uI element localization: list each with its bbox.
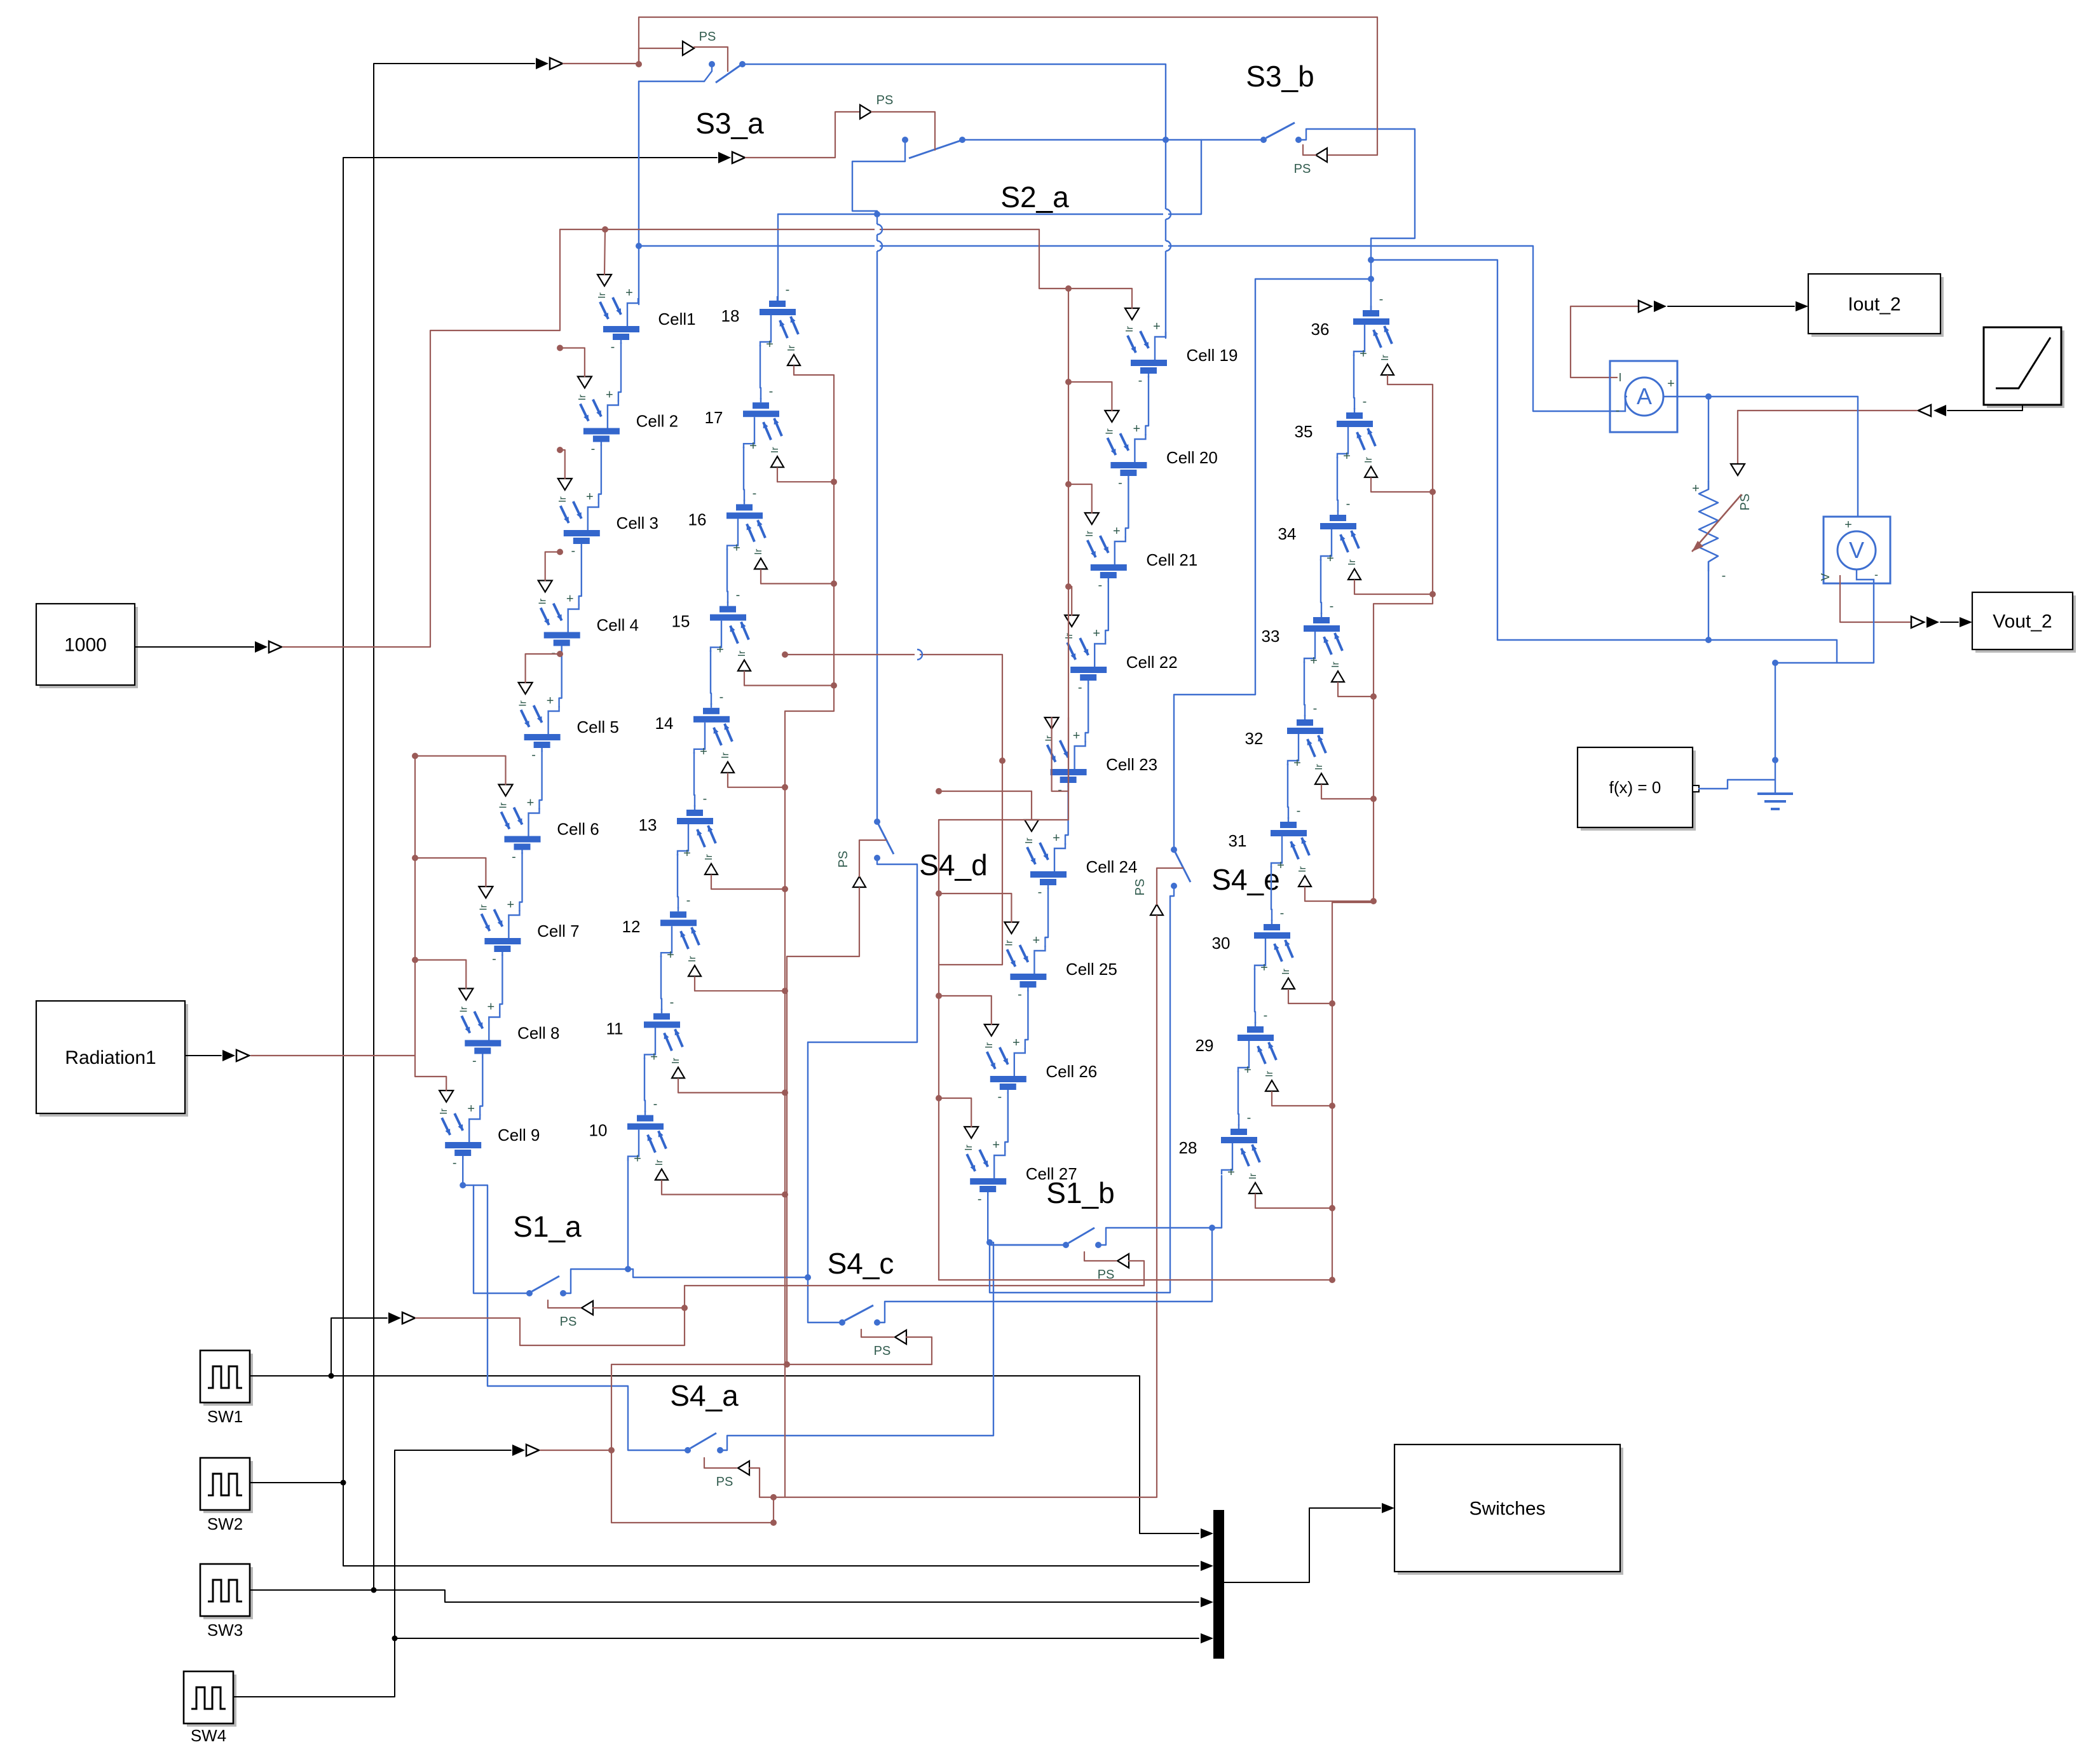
wire 36 top to S4_e [1174,279,1371,850]
svg-text:+: + [606,388,613,402]
wire radiation spine C link [939,717,1068,1280]
wire S4_c PS stub [861,1329,894,1337]
svg-text:Cell 2: Cell 2 [636,412,678,431]
solver block f(x)=0 [1578,747,1696,831]
junction Ir 16 [831,580,837,587]
svg-text:f(x) = 0: f(x) = 0 [1609,778,1661,797]
resistor control arrow [1692,494,1742,552]
svg-text:+: + [507,898,515,912]
hop Cell19 riser over string B bus [1163,209,1168,219]
wire 36 top to output bus [1371,260,1497,640]
wire Cell9 to S1_a [463,1185,528,1293]
svg-text:11: 11 [606,1019,624,1038]
wire 35 to 34 [1337,457,1338,512]
hop S2_a line over radiation bus [875,224,880,235]
wire Ir 36 chain [1332,376,1433,1280]
junction ground branch [1772,660,1778,666]
svg-text:+: + [733,541,740,555]
wire Cell 26 to Cell 27 [1005,1092,1008,1152]
svg-text:SW2: SW2 [207,1514,243,1533]
svg-text:-: - [753,486,757,500]
wire 36 to 35 [1354,355,1354,409]
svg-text:PS: PS [876,93,894,107]
svg-text:A: A [1637,383,1652,409]
junction Ir 33 [1370,693,1377,700]
wire Cell1 to Cell 2 [618,343,621,402]
svg-text:35: 35 [1295,422,1313,441]
svg-text:PS: PS [1294,162,1311,176]
wire Cell 22 to Cell 23 [1086,683,1089,742]
svg-text:-: - [1379,292,1384,306]
svg-text:-: - [1058,783,1062,797]
svg-text:-: - [611,340,615,354]
svg-text:-: - [551,646,556,660]
wire Ir 13 [711,875,785,889]
svg-text:29: 29 [1196,1036,1214,1055]
svg-text:+: + [1073,729,1081,743]
junction Ir Cell 8 [412,957,418,963]
svg-text:+: + [1310,654,1318,668]
junction Cell9 bottom [460,1182,466,1188]
converter arrow Radiation1 [222,1050,235,1061]
svg-text:Cell1: Cell1 [658,309,695,329]
wire J1 to resistor [1708,397,1709,481]
wire Ir Cell 22 [1068,587,1072,615]
junction 36 top b [1368,276,1374,282]
svg-text:15: 15 [672,612,690,631]
solar cell 30 [1254,920,1293,970]
svg-text:Vout_2: Vout_2 [1993,611,2052,632]
svg-text:V: V [1849,537,1864,563]
solar cell Cell 25 [1007,945,1046,991]
svg-text:Cell 3: Cell 3 [617,513,658,533]
wire S4 control from converter [540,1450,611,1451]
junction S4_c left [805,1274,811,1281]
svg-text:-: - [1616,404,1620,418]
svg-text:36: 36 [1311,320,1330,339]
svg-text:18: 18 [721,306,740,325]
wire bus to voltmeter minus [1775,583,1874,663]
svg-text:Ir: Ir [1347,559,1358,565]
arrow into Switches [1382,1503,1394,1513]
svg-text:Ir: Ir [1004,939,1014,946]
svg-text:+: + [1692,482,1700,496]
wire converter to Vout_2 [1940,622,1958,623]
wire SW4 to mux [395,1638,1199,1639]
junction SW3 [371,1587,377,1593]
solar cell Cell 9 [442,1113,481,1160]
svg-text:-: - [472,1054,477,1068]
wire Cell27 node to S4_e bottom [990,886,1174,1293]
svg-text:Ir: Ir [1380,354,1391,360]
wire S4e control link [774,1497,785,1498]
solar cell 34 [1320,510,1359,561]
svg-text:+: + [716,643,724,657]
wire S3_b right riser [1299,129,1415,311]
wire Radiation1 output [185,1055,221,1056]
converter saturation to PS [1918,405,1931,416]
wire Ir Cell 27 [939,1098,971,1127]
wire Cell 7 to Cell 8 [500,955,502,1014]
wire S4 control down [611,1450,774,1523]
wire SW4 output [234,1638,395,1697]
wire 14 to 13 [694,752,695,806]
junction Ir Cell 4 [557,549,563,555]
solar cell 28 [1221,1124,1260,1174]
wire solver to ground node [1699,780,1775,789]
wire S3_a PS lead [639,48,681,64]
svg-text:Ir: Ir [1330,661,1341,667]
arrow into Vout_2 [1960,617,1972,627]
wire Ir 34 [1354,580,1433,594]
wire S1_a PS stub [548,1300,580,1308]
wire Cell 3 to Cell 4 [579,547,582,606]
wire Cell27 node to S4_a right [720,1242,993,1450]
wire S4_d bottom route [808,858,917,1277]
svg-text:10: 10 [589,1121,608,1140]
junction 36 top a [1368,257,1374,263]
junction J1 [1705,393,1712,400]
svg-text:-: - [1038,885,1042,899]
solar cell Cell 5 [521,705,561,752]
svg-text:-: - [1346,497,1351,511]
solar cell 11 [644,1009,683,1059]
solar cell Cell 4 [541,604,580,650]
svg-text:Cell 22: Cell 22 [1126,653,1178,672]
svg-text:-: - [1018,988,1022,1002]
svg-text:30: 30 [1212,934,1231,953]
wire 1000 output [135,646,254,648]
svg-text:PS: PS [716,1475,733,1489]
solar cell Cell 19 [1128,331,1167,377]
svg-text:Ir: Ir [720,752,731,758]
svg-text:+: + [1326,552,1334,566]
svg-text:Cell 4: Cell 4 [596,616,638,635]
wire ammeter I to converter [1571,306,1637,377]
svg-text:SW1: SW1 [207,1407,243,1426]
junction SW1 [329,1373,334,1379]
svg-text:-: - [1297,804,1301,818]
wire SW4 to converter [395,1450,511,1638]
svg-text:Cell 19: Cell 19 [1187,346,1238,365]
wire Ir 32 [1321,785,1374,799]
junction Ir 28 [1329,1205,1335,1211]
converter arrow S3 control [536,58,549,69]
svg-text:-: - [1078,681,1082,695]
solar cell Cell 7 [481,909,521,956]
wire voltmeter V to converter [1840,583,1910,622]
wire Ir Cell 8 [415,960,466,989]
svg-text:+: + [634,1152,641,1166]
wire Ir 18 chain [785,366,834,1497]
wire 16 to 15 [727,548,728,602]
wire Cell 24 to Cell 25 [1045,888,1048,947]
solar cell Cell 21 [1087,536,1127,582]
wire Ir 35 [1371,478,1433,492]
wire Ir 15 [744,672,834,686]
svg-text:14: 14 [655,714,674,733]
svg-text:Cell 6: Cell 6 [557,820,599,839]
pulse generator SW1 [200,1350,253,1406]
hop Cell19 riser over main bus [1163,241,1168,251]
PS port S3_a [683,41,694,55]
svg-text:+: + [766,337,774,351]
wire 30 to 29 [1255,969,1255,1023]
wire Cell 6 to Cell 7 [519,853,522,912]
junction Ir 35 [1429,489,1436,495]
svg-text:Ir: Ir [478,904,489,910]
junction S4d control [784,1361,790,1368]
svg-text:12: 12 [622,917,641,936]
wire Ir 14 [728,773,785,787]
svg-text:+: + [625,286,633,300]
wire 11 to 10 [644,1057,645,1111]
junction Cell10 plus [625,1266,631,1272]
solar cell Cell 23 [1047,740,1087,787]
wire radiation link BC [785,655,1002,965]
wire 15 to 14 [711,651,711,705]
svg-text:Iout_2: Iout_2 [1848,294,1900,315]
svg-text:Ir: Ir [1104,428,1115,434]
svg-text:SW3: SW3 [207,1621,243,1640]
wire resistor to output bus [1708,571,1709,640]
outport block Vout_2 [1972,592,2076,653]
solar cell 14 [693,704,732,754]
wire string B top bus [778,140,1201,214]
svg-text:+: + [1260,961,1268,975]
wire top brown loop [639,17,1377,64]
wire Ir 31 [1305,887,1374,901]
wire Ir 29 [1272,1092,1332,1106]
wire S1 control net [416,1286,685,1345]
wire Ir Cell 25 [939,894,1011,922]
junction S4 control [608,1447,615,1453]
svg-text:+: + [749,439,757,453]
svg-text:Ir: Ir [1124,325,1135,332]
mux block [1213,1510,1224,1659]
solar cell Cell 26 [987,1047,1026,1094]
svg-text:Ir: Ir [786,344,797,351]
converter Iout [1639,301,1651,312]
svg-text:Cell 27: Cell 27 [1026,1164,1077,1183]
wire SW1 output [250,1376,1199,1533]
svg-text:-: - [1722,569,1726,583]
wire Cell 21 to Cell 22 [1105,581,1108,640]
wire radiation bus into Cell19 [1068,289,1132,308]
wire SW3 to converter [374,64,535,1590]
wire Ir Cell 4 [545,552,560,581]
svg-text:+: + [1360,347,1367,361]
svg-text:-: - [571,544,575,558]
wire Cell 8 to Cell 9 [480,1057,482,1116]
arrow mux in2 [1201,1561,1213,1571]
outport block Iout_2 [1808,274,1944,337]
svg-text:Ir: Ir [737,650,747,656]
svg-text:+: + [1093,627,1100,641]
svg-text:PS: PS [699,30,716,44]
wire S1_b PS stub [1084,1252,1116,1261]
solar cell Cell 22 [1067,638,1107,684]
svg-text:Ir: Ir [1264,1070,1275,1077]
svg-text:Ir: Ir [1064,632,1075,639]
wire S3_a PS control [694,47,728,71]
wire S1_b right [1098,1228,1212,1245]
wire Cell 23 to Cell 24 [1065,785,1068,845]
solar cell 16 [726,500,765,550]
svg-text:Ir: Ir [439,1108,449,1114]
constant block 1000 [36,604,138,688]
junction S3 control [636,61,642,67]
svg-text:+: + [586,490,594,504]
wire S1_a bus [628,1269,808,1277]
solar cell Cell 2 [580,400,620,446]
wire SW3 to mux [374,1590,1199,1602]
wire S4 control up [611,1364,932,1450]
solar cell 10 [627,1111,666,1161]
wire junction to S4_c left [808,1277,842,1322]
wire Cell 5 to Cell 6 [540,751,542,810]
wire S4_d PS net [787,888,859,1364]
converter Vout [1911,616,1924,628]
svg-text:Radiation1: Radiation1 [65,1047,156,1068]
svg-text:Ir: Ir [654,1159,665,1166]
wire Ir 30 [1288,989,1332,1003]
wire Ir 28 [1255,1194,1332,1208]
svg-text:-: - [703,792,707,806]
solver port [1693,785,1699,792]
junction Ir 15 [831,683,837,689]
svg-text:Ir: Ir [498,802,509,808]
svg-text:-: - [769,384,774,398]
svg-text:+: + [1277,859,1285,873]
junction Cell19 plus [1162,137,1169,143]
svg-text:Cell 25: Cell 25 [1066,960,1117,979]
saturation block [1984,327,2064,408]
variable resistor R [1699,481,1718,571]
PS port S2_a [860,105,871,119]
wire S3_a left to Cell1 plus [639,81,704,304]
wire saturation output [1947,405,2022,411]
solar cell Cell 20 [1107,433,1147,480]
converter arrow 1000 [255,641,268,653]
svg-text:Ir: Ir [753,548,764,555]
arrow into Iout_2 [1796,301,1808,311]
svg-text:+: + [1033,934,1040,948]
svg-text:S1_a: S1_a [513,1210,582,1243]
junction Ir 14 [782,784,788,791]
solar cell Cell 27 [967,1150,1006,1196]
wire S1_b PS control [685,1261,1144,1286]
junction Ir Cell 6 [412,753,418,759]
svg-text:Cell 9: Cell 9 [498,1125,540,1145]
svg-text:-: - [719,690,724,704]
junction Ir Cell 22 [1065,583,1072,590]
solar cell 13 [677,805,716,855]
wire S2_a left drop [852,140,905,214]
wire SW3 output [250,1589,374,1591]
wire 31 to 30 [1271,866,1272,921]
junction radiation BC b [999,758,1006,764]
solar cell Cell 6 [501,808,541,854]
wire SW2 output [250,1482,343,1483]
svg-text:Ir: Ir [1363,456,1374,463]
svg-text:1000: 1000 [64,635,107,656]
wire Ir 12 [695,977,785,991]
wire Ir Cell 5 [526,654,560,683]
solar cell 18 [760,296,798,346]
junction Ir 32 [1370,796,1377,802]
wire Ir Cell 20 [1068,382,1112,411]
junction Ir Cell 7 [412,855,418,861]
wire Ir Cell 3 [560,450,565,479]
junction Ir 11 [782,1089,788,1096]
wire S4_c PS control [906,1337,932,1364]
junction Cell27 bottom [986,1239,993,1246]
svg-text:-: - [653,1098,658,1111]
arrow mux in1 [1201,1528,1213,1539]
svg-text:Cell 24: Cell 24 [1086,857,1138,876]
wire S3_a right to Cell19 [742,64,1166,338]
svg-text:PS: PS [874,1344,891,1358]
svg-text:Cell 7: Cell 7 [537,921,579,941]
junction radiation C [1065,285,1072,292]
wire S3_b PS stub [1303,145,1316,155]
solar cell Cell 24 [1027,843,1067,889]
junction SW4 [392,1636,398,1642]
svg-text:-: - [1874,568,1878,581]
PS port S1_b [1117,1254,1129,1268]
junction Ir 31 [1370,898,1377,904]
junction solver connect [1772,757,1778,763]
wire Cell27 bottom [988,1192,990,1242]
svg-text:Ir: Ir [1084,530,1095,536]
wire 34 to 33 [1321,559,1321,614]
svg-text:S4_c: S4_c [828,1247,894,1280]
solar cell 36 [1353,306,1392,356]
junction Ir Cell 25 [936,890,942,897]
svg-text:-: - [786,283,790,297]
wire Ir Cell1 [604,229,605,275]
svg-text:34: 34 [1278,524,1297,543]
svg-text:Ir: Ir [704,853,714,860]
svg-text:S3_a: S3_a [695,107,764,140]
wire S4_e PS net [785,916,1157,1497]
solar cell 12 [660,907,699,957]
wire Cell 19 to Cell 20 [1145,376,1149,435]
junction Ir Cell 5 [557,651,563,657]
wire main positive bus [639,246,1610,411]
svg-text:16: 16 [688,510,707,529]
wire S1_a PS control [593,1307,685,1309]
svg-text:Cell 8: Cell 8 [517,1024,559,1043]
svg-text:Cell 20: Cell 20 [1166,448,1218,467]
PS port S1_a [582,1301,593,1315]
svg-text:Ir: Ir [1281,968,1292,974]
junction radiation bottom [1329,1277,1335,1283]
source block Radiation1 [36,1001,188,1117]
ammeter block [1610,361,1677,432]
wire Cell 20 to Cell 21 [1126,479,1129,538]
svg-text:-: - [1118,476,1122,490]
svg-text:-: - [1247,1111,1251,1125]
pulse generator SW3 [200,1564,253,1619]
svg-text:Cell 23: Cell 23 [1106,755,1157,774]
scope block Switches [1394,1445,1623,1575]
junction Ir 29 [1329,1103,1335,1109]
svg-text:-: - [492,952,496,966]
wire 32 to 31 [1288,764,1288,819]
svg-text:Cell 5: Cell 5 [576,717,618,737]
